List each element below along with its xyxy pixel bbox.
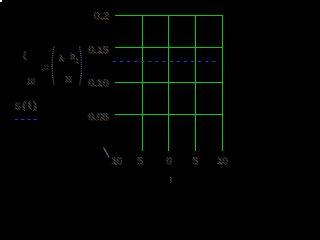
y tick label 0.2 (79, 11, 109, 21)
x tick label 0 (166, 156, 172, 166)
y tick label 0.05 (79, 112, 109, 122)
blue dashed data line (113, 61, 220, 62)
horizontal gridline y=0.2 (115, 15, 222, 16)
formula: denominator small 0 (27, 77, 35, 87)
formula: numerator lambda dot (59, 53, 67, 63)
x tick label 5 (192, 156, 198, 166)
legend dashed line sample (15, 119, 37, 121)
vertical gridline x=-5 (142, 15, 143, 151)
formula: denominator 10 (65, 75, 73, 85)
x axis variable t (170, 176, 173, 186)
y tick label 0.15 (79, 45, 109, 55)
stray diagonal mark below-left of plot (104, 148, 107, 153)
x tick label -10 (111, 156, 122, 166)
x tick label -5 (137, 156, 143, 166)
x tick label 10 (217, 156, 228, 166)
legend label s(t) (15, 99, 39, 111)
white cursor blob top-left (0, 0, 2, 2)
formula: big left paren (0, 0, 244, 188)
formula: numerator b (70, 51, 75, 61)
formula: assignment := (41, 62, 49, 72)
formula: numerator squiggle xi (23, 50, 27, 60)
formula: numerator subscript 1 (75, 57, 79, 67)
horizontal gridline y=0.15 (115, 47, 222, 48)
horizontal gridline y=0.05 (115, 114, 222, 115)
vertical gridline x=10 (right edge) (222, 15, 223, 151)
y tick label 0.1 (79, 78, 109, 88)
vertical gridline x=0 (168, 15, 169, 151)
horizontal gridline y=0.1 (115, 82, 222, 83)
vertical gridline x=5 (195, 15, 196, 151)
